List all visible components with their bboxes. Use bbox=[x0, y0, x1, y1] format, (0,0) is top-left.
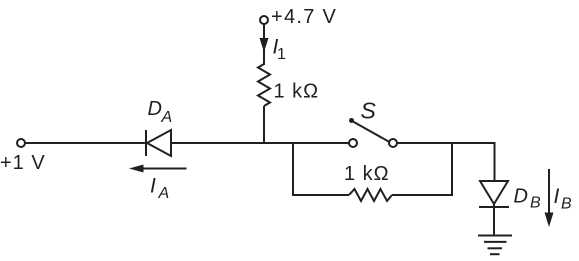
wire resistor to main node bbox=[263, 106, 265, 143]
wire right branch up to main wire bbox=[451, 143, 453, 196]
switch S right contact bbox=[389, 139, 397, 147]
svg-text:1 kΩ: 1 kΩ bbox=[344, 163, 390, 185]
svg-text:A: A bbox=[161, 109, 173, 126]
wire corner down to diode DB bbox=[494, 143, 496, 181]
wire bottom left to resistor bbox=[292, 194, 349, 196]
terminal +1 V bbox=[17, 139, 25, 147]
ground line 1 bbox=[478, 235, 512, 237]
svg-text:A: A bbox=[158, 185, 170, 202]
resistor R top 1 kOhm zigzag bbox=[258, 64, 270, 106]
svg-text:D: D bbox=[148, 98, 162, 120]
wire diode DA to switch bbox=[171, 142, 349, 144]
svg-text:B: B bbox=[561, 196, 572, 213]
switch S left contact bbox=[349, 139, 357, 147]
current arrow IA head bbox=[129, 165, 144, 173]
wire node down left branch of parallel resistor bbox=[292, 143, 294, 195]
svg-text:1: 1 bbox=[277, 46, 286, 63]
svg-text:+1 V: +1 V bbox=[0, 152, 46, 174]
resistor 1 kOhm bottom zigzag bbox=[349, 189, 392, 201]
current arrow I1 head bbox=[260, 38, 269, 52]
ground line 3 bbox=[488, 247, 503, 249]
current arrow IA line bbox=[140, 168, 187, 170]
diode DB cathode bar bbox=[479, 206, 509, 208]
switch S pivot dot bbox=[349, 118, 354, 123]
switch S lever bbox=[352, 121, 390, 142]
svg-text:I: I bbox=[554, 185, 560, 208]
wire left terminal to diode DA bbox=[25, 142, 146, 144]
wire resistor to right branch bbox=[392, 194, 452, 196]
ground line 4 bbox=[490, 253, 500, 255]
diode DB triangle bbox=[480, 181, 508, 204]
wire diode DB to ground bbox=[493, 204, 495, 235]
svg-text:+4.7 V: +4.7 V bbox=[271, 6, 337, 28]
svg-text:1 kΩ: 1 kΩ bbox=[274, 81, 320, 103]
diode DA triangle bbox=[147, 130, 171, 156]
svg-text:I: I bbox=[150, 175, 156, 198]
svg-text:B: B bbox=[530, 195, 541, 212]
terminal +4.7 V bbox=[260, 16, 268, 24]
wire top supply to resistor bbox=[263, 24, 265, 65]
diode DA cathode bar bbox=[145, 130, 147, 156]
wire switch to corner bbox=[397, 142, 496, 144]
current arrow IB line bbox=[548, 169, 550, 215]
current arrow IB head bbox=[545, 213, 554, 228]
svg-text:S: S bbox=[361, 97, 377, 123]
ground line 2 bbox=[484, 241, 507, 243]
svg-text:D: D bbox=[514, 186, 528, 208]
